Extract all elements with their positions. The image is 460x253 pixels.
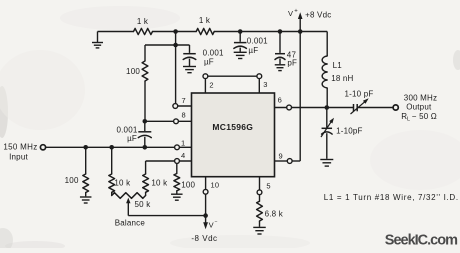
svg-text:5: 5 (266, 182, 270, 191)
svg-text:−: − (215, 220, 218, 226)
svg-text:100: 100 (181, 180, 195, 189)
svg-text:Input: Input (9, 153, 28, 162)
svg-text:100: 100 (65, 176, 79, 185)
svg-text:150 MHz: 150 MHz (3, 143, 37, 152)
svg-text:10: 10 (211, 181, 220, 190)
svg-text:L: L (407, 117, 410, 123)
svg-text:L1 = 1 Turn #18 Wire, 7/32'' I: L1 = 1 Turn #18 Wire, 7/32'' I.D. (324, 193, 459, 202)
svg-text:L1: L1 (333, 61, 343, 70)
svg-text:− 50 Ω: − 50 Ω (412, 112, 437, 121)
svg-text:18 nH: 18 nH (331, 74, 353, 83)
svg-text:0.001: 0.001 (247, 37, 268, 46)
svg-text:1: 1 (181, 138, 185, 147)
svg-text:1 k: 1 k (199, 16, 211, 25)
svg-text:300 MHz: 300 MHz (404, 93, 437, 102)
svg-text:7: 7 (182, 96, 186, 105)
svg-text:6: 6 (278, 95, 282, 104)
svg-text:10 k: 10 k (114, 179, 131, 188)
svg-text:100: 100 (126, 67, 140, 76)
svg-text:2: 2 (209, 81, 213, 90)
svg-text:3: 3 (263, 80, 267, 89)
svg-text:0.001: 0.001 (203, 48, 224, 57)
svg-text:µF: µF (127, 134, 137, 143)
svg-text:V: V (288, 9, 293, 18)
svg-text:50 k: 50 k (135, 200, 152, 209)
svg-text:1-10 pF: 1-10 pF (345, 89, 374, 98)
svg-text:8: 8 (182, 111, 186, 120)
svg-text:V: V (209, 221, 214, 230)
svg-text:+: + (294, 9, 298, 15)
svg-text:10 k: 10 k (151, 179, 168, 188)
svg-text:pF: pF (287, 59, 297, 68)
svg-text:MC1596G: MC1596G (212, 122, 253, 132)
svg-text:SeekIC.com: SeekIC.com (385, 232, 457, 248)
svg-text:-8 Vdc: -8 Vdc (191, 234, 217, 243)
svg-text:Output: Output (406, 103, 432, 112)
svg-text:1-10pF: 1-10pF (336, 126, 363, 135)
svg-text:1 k: 1 k (137, 17, 149, 26)
svg-text:Balance: Balance (115, 218, 146, 227)
svg-text:+8 Vdc: +8 Vdc (305, 11, 331, 20)
svg-text:6.8 k: 6.8 k (265, 210, 284, 219)
svg-text:µF: µF (204, 57, 214, 66)
svg-text:9: 9 (279, 152, 283, 161)
svg-text:µF: µF (248, 46, 258, 55)
svg-text:4: 4 (181, 151, 185, 160)
